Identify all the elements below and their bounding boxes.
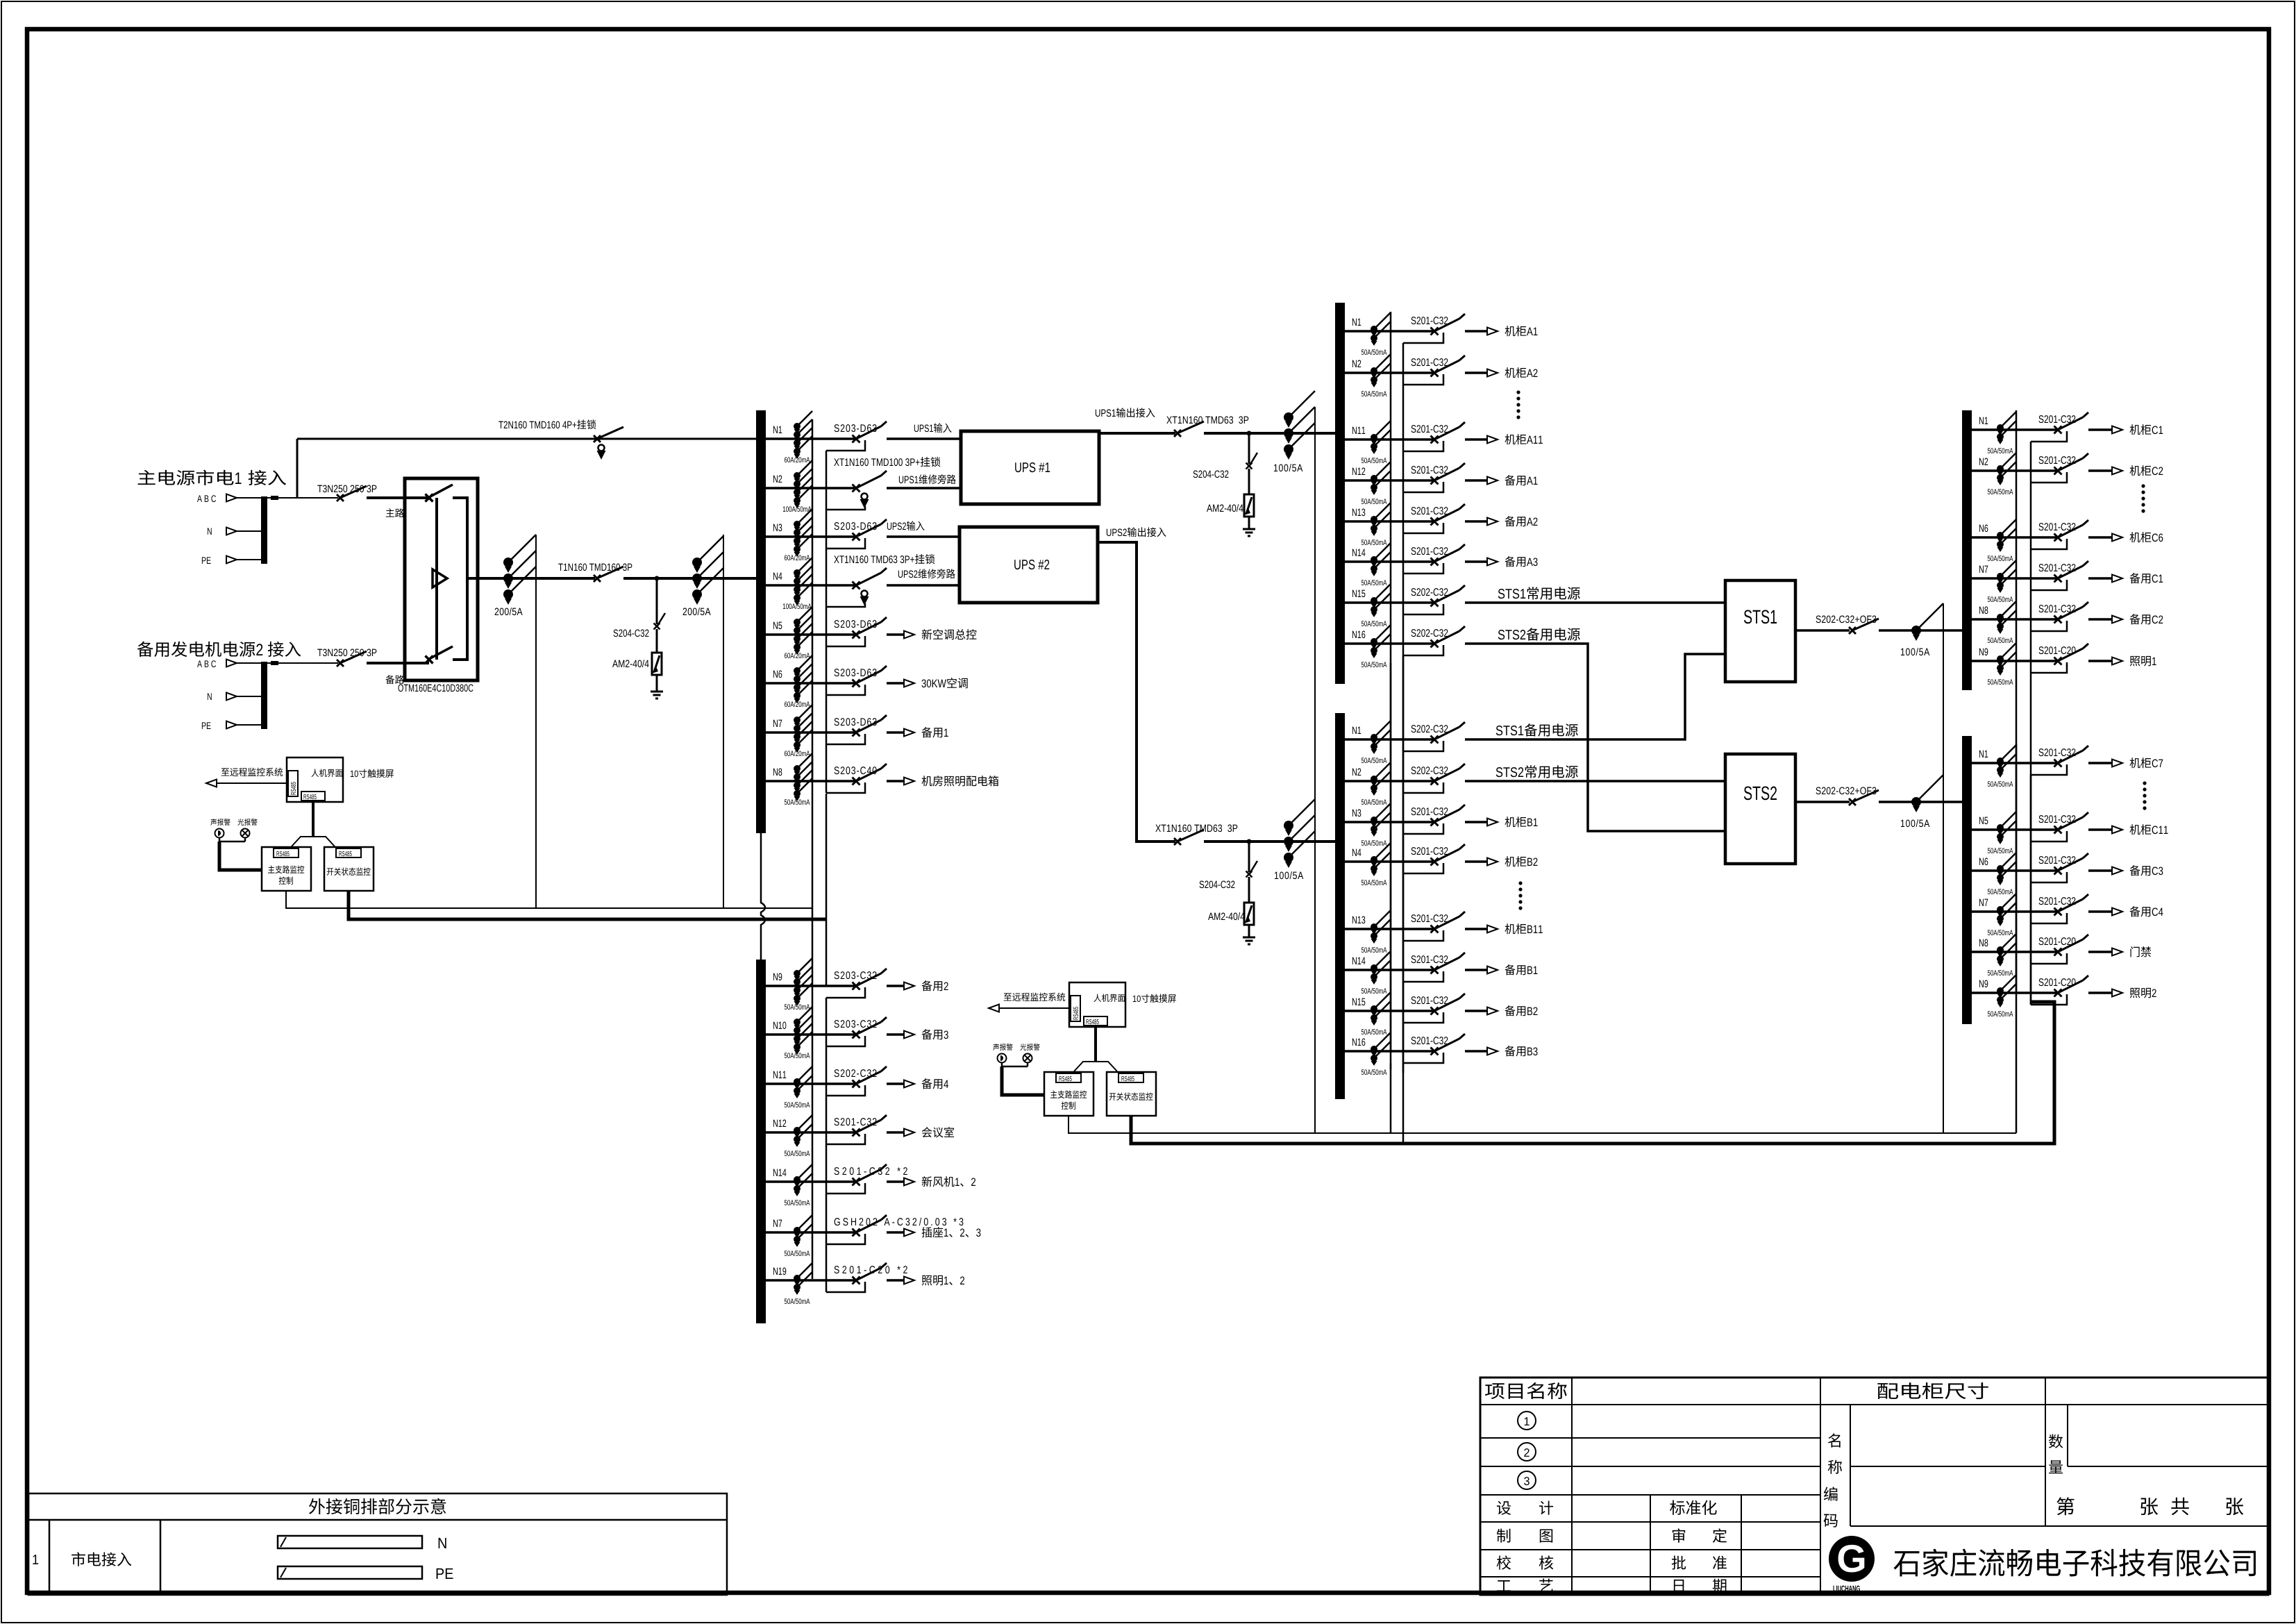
RCBO N2 50A/50mA	[1997, 465, 2004, 472]
wire left chain1 extension across monitor lines	[812, 755, 814, 966]
ground symbol	[651, 691, 663, 693]
RCBO N5 60A/20mA	[794, 619, 801, 626]
node N14 label	[1352, 957, 1366, 964]
node N1 label	[773, 426, 782, 433]
wire branch N14 from bus	[766, 1180, 855, 1183]
breaker T1N160 TMD160 3P	[594, 575, 601, 582]
RCBO N12 50A/50mA	[794, 1127, 801, 1134]
breaker S204-C32 (surge)	[654, 623, 660, 630]
label S202-C32+OF3 (STS1 out)	[1816, 616, 1877, 623]
CT 100/5A (STS2 out)	[1911, 797, 1921, 807]
wire breaker N13 status stub	[1403, 930, 1443, 941]
controller box 主支路监控控制 G2	[1044, 1072, 1093, 1116]
wire QF2 to ATS backup input	[367, 662, 429, 664]
lamp alarm symbol G1	[241, 829, 250, 838]
node N8 label	[773, 769, 782, 776]
terminal arrow N10	[904, 1031, 914, 1039]
wire ABC1 to terminal bar	[237, 497, 261, 499]
terminal arrow N13	[1487, 518, 1498, 526]
breaker N7 S201-C32	[2054, 575, 2062, 583]
breaker QF1 T3N250 main	[337, 494, 344, 501]
wire N7 output to load	[887, 1231, 905, 1234]
RCBO N16 50A/50mA	[1371, 638, 1377, 645]
legend N busbar	[278, 1536, 422, 1548]
node N16 label	[1352, 1039, 1365, 1046]
wire chain line (breaker status link) bus A	[1402, 343, 1405, 1073]
load label 备用A2	[1505, 516, 1525, 526]
wire breaker to CT (STS1 out)	[1879, 629, 1962, 632]
label 校 核	[1497, 1555, 1511, 1569]
title block col line 名称/编码 labels	[1850, 1405, 1851, 1526]
CT bank 200/5A no.1	[503, 558, 513, 567]
terminal arrow N6	[2112, 867, 2122, 875]
wire branch N9 from bus	[1972, 660, 2057, 662]
wire branch N5 from bus	[766, 633, 855, 636]
wire alarms to controller G1	[219, 838, 221, 842]
wire breaker N6 status stub	[2031, 539, 2067, 549]
wire breaker N19 status stub	[826, 1282, 865, 1292]
terminal arrow N19	[904, 1277, 914, 1284]
node N6 label	[1979, 858, 1988, 866]
wire N8 output to load	[2088, 951, 2113, 953]
wire breaker N6 status stub	[2031, 872, 2067, 882]
wire breaker N7 status stub	[2031, 913, 2067, 923]
title block row line 1	[1480, 1404, 2268, 1405]
CT bank 200/5A no.2	[692, 558, 702, 567]
wire N1 output to load	[1465, 330, 1488, 333]
wire QF1 to ATS main input	[367, 496, 429, 499]
label 配电柜尺寸	[1877, 1382, 1988, 1399]
wire breaker N14 status stub	[1403, 971, 1443, 982]
wire breaker N7 status stub	[2031, 580, 2067, 590]
wire N4 output	[887, 584, 960, 587]
breaker N1 S201-C32	[2054, 426, 2062, 434]
wire N1 output to load	[2088, 762, 2113, 764]
RCBO N6 50A/50mA	[1997, 865, 2004, 872]
RCBO N9 50A/50mA	[1997, 987, 2004, 994]
load label 30KW空调	[922, 679, 946, 687]
terminal arrow N7	[904, 729, 914, 737]
wire breaker N14 status stub	[826, 1183, 865, 1194]
label 声报警 G1	[210, 819, 230, 826]
wire branch N11 from bus	[766, 1082, 855, 1085]
wire 主支路监控 output (thin monitor line 2)	[1069, 1116, 2016, 1133]
wire junction down to surge arrester branch	[656, 578, 658, 624]
breaker S202-C32+OF3 (STS1 out)	[1849, 627, 1856, 634]
RCBO N4 100A/50mA	[794, 569, 801, 576]
terminal arrow N8	[2112, 948, 2122, 956]
wire junction down to surge branch (B)	[1248, 842, 1250, 872]
node N6 label	[773, 671, 782, 678]
wire branch N7 from bus	[766, 731, 855, 734]
breaker N14 S201-C32	[1431, 558, 1439, 566]
RCBO N8 50A/50mA	[794, 765, 801, 772]
label XT1N160 TMD63 3P (B feeder)	[1155, 825, 1237, 832]
wire bypass feed line to left bus top	[297, 438, 756, 440]
node N5 label	[773, 622, 782, 629]
wire STS1常用电源 to STS1	[1465, 601, 1725, 604]
RCBO N15 50A/50mA	[1371, 597, 1377, 604]
wire STS2备用电源 to STS2 lower input	[1465, 644, 1725, 831]
load label 备用2	[921, 980, 942, 991]
node N2 label	[1979, 458, 1988, 465]
wire branch N13 from bus	[1345, 520, 1434, 523]
wire chain line (breaker status link) N-left-upper	[826, 451, 828, 793]
RCBO N12 50A/50mA	[1371, 475, 1377, 482]
lamp alarm symbol G2	[1023, 1054, 1032, 1063]
node N7 label	[773, 720, 782, 727]
wire PE1 to terminal bar	[237, 559, 261, 560]
RCBO N9 50A/50mA	[794, 970, 801, 977]
load label 备用C3	[2129, 865, 2150, 876]
terminal arrow N5	[904, 631, 914, 639]
wire breaker N1 status stub	[826, 440, 865, 451]
ATS main contact	[426, 494, 433, 502]
wire branch N9 from bus	[766, 985, 855, 987]
title block row line 设计/制图	[1480, 1521, 1820, 1523]
node N7 label	[1979, 899, 1988, 906]
RCBO N13 50A/50mA	[1371, 923, 1377, 930]
wire chain line (RCBO trip link) bus C	[2016, 410, 2018, 1000]
terminal arrow N3	[1487, 819, 1498, 826]
node N5 label	[1979, 817, 1988, 824]
ATS internal loop	[453, 498, 467, 660]
wire N8 output to load	[887, 780, 905, 782]
wire N2 output	[887, 487, 961, 489]
label OTM160E4C10D380C	[399, 685, 474, 692]
RCBO N1 50A/50mA	[1371, 326, 1377, 333]
wire N14 output to load	[1465, 969, 1488, 971]
breaker N7 S201-C32	[2054, 908, 2062, 916]
wire bus A/B chain lines across gap	[1390, 663, 1392, 720]
ATS backup contact	[426, 656, 433, 664]
RCBO N3 50A/50mA	[1371, 817, 1377, 823]
terminal arrow N2	[1487, 369, 1498, 377]
breaker N3 S203-D63	[853, 533, 860, 541]
breaker N7 GSH202 A-C32/0.03 *3	[853, 1229, 860, 1237]
input 2 terminal N	[208, 693, 212, 700]
label ②	[1518, 1443, 1536, 1461]
label 设 计	[1497, 1501, 1511, 1515]
node N14 label	[1352, 549, 1366, 556]
label UPS2输出接入	[1107, 529, 1127, 537]
bus bar bus B	[1335, 713, 1345, 1099]
input 2 phase terminals A B C	[197, 660, 216, 667]
terminal arrow N11	[904, 1080, 914, 1088]
RCBO N7 50A/50mA	[1997, 573, 2004, 580]
node N6 label	[1979, 525, 1988, 533]
wire N11 output to load	[1465, 438, 1488, 441]
terminal arrow N9	[2112, 658, 2122, 665]
STS unit box STS2	[1725, 754, 1795, 864]
input 2 terminal PE	[202, 722, 211, 729]
load label 备用A1	[1505, 475, 1525, 485]
RCBO N4 50A/50mA	[1371, 856, 1377, 863]
terminal arrow N14	[1487, 966, 1498, 974]
label T2N160 TMD160 4P+挂锁	[498, 421, 576, 429]
UPS unit box UPS #1	[961, 431, 1099, 504]
wire N11 output to load	[887, 1082, 905, 1085]
breaker N1 S201-C32	[2054, 760, 2062, 767]
wire branch N7 from bus	[1972, 910, 2057, 913]
wire branch N8 from bus	[766, 780, 855, 782]
breaker N12 S201-C32	[1431, 477, 1439, 485]
terminal arrow N1	[1487, 328, 1498, 335]
load label 备用C1	[2129, 573, 2150, 583]
wire branch N12 from bus	[766, 1131, 855, 1134]
label 审 定	[1673, 1528, 1685, 1542]
STS unit box STS1	[1725, 580, 1795, 682]
label T3N250 250 3P (backup)	[317, 649, 376, 657]
breaker N8 S201-C20	[2054, 948, 2062, 956]
node N1 label	[1352, 319, 1361, 326]
terminal arrow N6	[2112, 534, 2122, 542]
wire input2 to breaker QF2	[267, 662, 338, 664]
wire CT to bus A	[1289, 432, 1335, 435]
wire branch N1 from bus	[1345, 738, 1434, 741]
wire arrester to ground	[656, 675, 658, 692]
wire branch N8 from bus	[1972, 618, 2057, 621]
label 至远程监控系统 G2	[1004, 993, 1066, 1001]
RCBO N3 60A/20mA	[794, 521, 801, 528]
wire branch N2 from bus	[1972, 469, 2057, 472]
input 1 terminal PE	[202, 557, 211, 564]
wire branch N9 from bus	[1972, 991, 2057, 994]
wire branch N3 from bus	[1345, 821, 1434, 823]
load label 机柜A11	[1505, 434, 1526, 444]
breaker S202-C32+OF3 (STS2 out)	[1849, 798, 1856, 805]
load label 机柜C2	[2129, 465, 2151, 476]
wire bus A/B chain lines to monitor lines	[1390, 1063, 1392, 1133]
wire branch N4 from bus	[766, 584, 855, 587]
wire N1 output	[887, 437, 961, 440]
breaker N4 XT1N160 TMD63 3P+挂锁	[853, 582, 860, 589]
terminal bar input 2	[261, 662, 267, 729]
label 第 张 共 张	[2056, 1497, 2074, 1515]
load label 备用B1	[1505, 964, 1525, 975]
node N11 label	[1352, 427, 1365, 434]
label 名称	[1828, 1433, 1841, 1447]
wire breaker N4 status stub	[826, 603, 865, 607]
label 至远程监控系统 G1	[221, 768, 283, 776]
terminal arrow 至远程监控系统 G2	[989, 1005, 999, 1012]
load label 机柜B11	[1505, 923, 1526, 934]
bus bar bus C	[1962, 410, 1972, 690]
RCBO N5 50A/50mA	[1997, 824, 2004, 831]
dots bus B continuation	[1518, 881, 1522, 885]
terminal arrow N7	[2112, 908, 2122, 916]
RCBO N14 50A/50mA	[794, 1176, 801, 1183]
wire N3 output	[887, 535, 960, 538]
breaker N7 S203-D63	[853, 729, 860, 737]
wire bypass riser from main input	[296, 439, 299, 498]
load label 机柜C6	[2129, 532, 2151, 542]
wire chain line (RCBO trip link) N-left-upper	[812, 419, 814, 780]
node N3 label	[773, 524, 782, 532]
terminal arrow N8	[904, 778, 914, 785]
wire breaker N5 status stub	[826, 636, 865, 646]
breaker N14 S201-C32	[1431, 966, 1439, 974]
wire N6 output to load	[2088, 869, 2113, 872]
wire N14 output to load	[1465, 560, 1488, 563]
node N7 label	[773, 1220, 782, 1227]
wire N3 output to load	[1465, 821, 1488, 823]
wire N9 output to load	[2088, 660, 2113, 662]
label 10寸触摸屏 G1	[351, 771, 358, 778]
bus bar N-left-lower	[756, 960, 766, 1323]
wire branch N1 from bus	[1972, 428, 2057, 431]
wire branch N10 from bus	[766, 1033, 855, 1036]
RCBO N13 50A/50mA	[1371, 516, 1377, 523]
RCBO N9 50A/50mA	[1997, 655, 2004, 662]
wire branch N8 from bus	[1972, 951, 2057, 953]
load label 机柜B2	[1505, 856, 1526, 867]
input 1 terminal N	[208, 528, 212, 535]
wire chain line (RCBO trip link) bus D	[2016, 744, 2018, 991]
wire N2 output to load	[2088, 469, 2113, 472]
load label 插座1、2、3	[922, 1227, 944, 1237]
wire branch N4 from bus	[1345, 860, 1434, 863]
RCBO N1 50A/50mA	[1997, 757, 2004, 764]
wire N12 output to load	[1465, 479, 1488, 482]
breaker XT1N160 TMD63 3P (A feeder)	[1174, 430, 1181, 437]
load label 备用C2	[2129, 614, 2150, 624]
node N4 label	[1352, 849, 1361, 856]
wire bus C/D chain lines to monitor hook	[2016, 1000, 2018, 1133]
label 主路	[386, 508, 404, 517]
node N11 label	[773, 1071, 786, 1078]
breaker N12 S201-C32	[853, 1129, 860, 1137]
breaker N13 S201-C32	[1431, 518, 1439, 526]
RCBO N1 60A/20mA	[794, 423, 801, 430]
breaker N6 S201-C32	[2054, 534, 2062, 542]
title block row line ②/③	[1480, 1466, 1820, 1467]
RCBO N2 50A/50mA	[1371, 776, 1377, 782]
wire breaker N8 status stub	[2031, 953, 2067, 964]
breaker N11 S202-C32	[853, 1080, 860, 1088]
wire T1N160 to CT2	[623, 577, 697, 580]
label ①	[1518, 1412, 1536, 1430]
wire breaker N8 status stub	[2031, 621, 2067, 631]
RCBO N7 50A/50mA	[794, 1227, 801, 1234]
RCBO N8 50A/50mA	[1997, 946, 2004, 953]
wire branch N12 from bus	[1345, 479, 1434, 482]
wire left chain2 extension across monitor lines	[826, 794, 828, 986]
wire N2 to terminal bar	[237, 696, 261, 697]
node N2 label	[773, 476, 782, 483]
terminal arrow N7	[904, 1229, 914, 1237]
terminal arrow N16	[1487, 1048, 1498, 1055]
wire STS2 output	[1795, 801, 1850, 803]
RCBO N1 50A/50mA	[1371, 734, 1377, 741]
legend label N	[439, 1538, 446, 1548]
RCBO N11 50A/50mA	[794, 1078, 801, 1085]
wire breaker N14 status stub	[1403, 563, 1443, 574]
node N2 label	[1352, 360, 1361, 367]
breaker N14 S201-C32 *2	[853, 1178, 860, 1186]
breaker N2 XT1N160 TMD100 3P+挂锁	[853, 485, 860, 492]
label 日 期	[1674, 1580, 1684, 1593]
wire breaker N12 status stub	[1403, 482, 1443, 492]
UPS unit box UPS #2	[960, 527, 1098, 603]
RCBO N14 50A/50mA	[1371, 964, 1377, 971]
load label 会议室	[922, 1127, 954, 1137]
wire breaker N9 status stub	[2031, 662, 2067, 673]
wire branch N5 from bus	[1972, 828, 2057, 831]
RCBO N2 50A/50mA	[1371, 367, 1377, 374]
legend PE busbar	[278, 1566, 422, 1579]
wire N5 output to load	[2088, 828, 2113, 831]
load label 机柜C11	[2129, 824, 2151, 835]
power source label STS1常用电源	[1498, 589, 1525, 598]
wire branch N15 from bus	[1345, 601, 1434, 604]
breaker N19 S201-C20 *2	[853, 1277, 860, 1284]
node N4 label	[773, 573, 782, 580]
load label 门禁	[2130, 946, 2151, 957]
node N10 label	[773, 1022, 787, 1030]
terminal arrow N9	[904, 982, 914, 990]
terminal bar input 1	[261, 496, 267, 564]
title block row line 编码 bottom	[1850, 1525, 2268, 1527]
wire breaker N1 status stub	[2031, 431, 2067, 442]
wire chain line (breaker status link) bus B	[1402, 751, 1405, 1063]
label 备用发电机电源2 接入	[137, 642, 255, 657]
title block row line ③/设计	[1480, 1494, 1820, 1496]
load label 机柜A1	[1505, 326, 1526, 336]
terminal arrow N15	[1487, 1007, 1498, 1015]
wire N9 output to load	[887, 985, 905, 987]
wire chain line (RCBO trip link) bus A	[1390, 312, 1392, 1069]
breaker N2 S201-C32	[1431, 369, 1439, 377]
dots bus A continuation	[1516, 390, 1520, 394]
port RS485 (left, to remote) G2	[1071, 996, 1080, 1021]
node N19 label	[773, 1268, 786, 1275]
title block frame	[1480, 1378, 2268, 1595]
terminal arrow N12	[1487, 477, 1498, 485]
RCBO N16 50A/50mA	[1371, 1046, 1377, 1053]
wire CT1 to T1N160	[508, 577, 595, 580]
breaker S204-C32 (B surge)	[1246, 871, 1252, 878]
label XT1N160 TMD63 3P (A feeder)	[1166, 417, 1248, 424]
breaker N9 S201-C20	[2054, 989, 2062, 997]
label 批 准	[1672, 1556, 1686, 1570]
RCBO N14 50A/50mA	[1371, 556, 1377, 563]
wire branch N1 from bus	[1972, 762, 2057, 764]
terminal arrow N2	[2112, 467, 2122, 475]
title block col line name section	[1820, 1378, 1821, 1595]
title block row line 校核/工艺	[1480, 1576, 1820, 1577]
wire breaker N16 status stub	[1403, 645, 1443, 655]
wire N6 output to load	[887, 682, 905, 685]
bus bar bus D	[1962, 736, 1972, 1024]
wire breaker N1 status stub	[2031, 764, 2067, 775]
wire breaker N13 status stub	[1403, 523, 1443, 533]
load label 机柜C1	[2129, 424, 2151, 435]
node N15 label	[1352, 590, 1365, 597]
wire breaker to CT (B feeder)	[1204, 840, 1284, 843]
wire N4 output to load	[1465, 860, 1488, 863]
wire branch N14 from bus	[1345, 969, 1434, 971]
wire N5 output to load	[887, 633, 905, 636]
breaker XT1N160 TMD63 3P (B feeder)	[1174, 838, 1181, 845]
node N15 label	[1352, 998, 1365, 1005]
audible alarm symbol G1	[215, 829, 224, 838]
wire branch N19 from bus	[766, 1279, 855, 1282]
RCBO N1 50A/50mA	[1997, 424, 2004, 431]
RCBO N10 50A/50mA	[794, 1019, 801, 1026]
load label 机柜A2	[1505, 367, 1526, 378]
load label 机柜B1	[1505, 817, 1526, 827]
